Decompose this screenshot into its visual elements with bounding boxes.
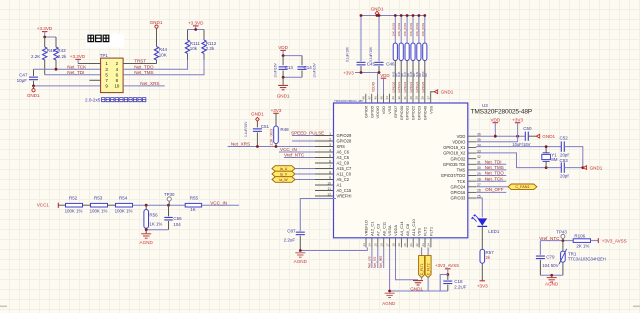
svg-text:3: 3 — [329, 143, 331, 147]
svg-text:9: 9 — [329, 176, 331, 180]
svg-text:Net_VS: Net_VS — [373, 256, 377, 268]
svg-text:GPIO24: GPIO24 — [451, 184, 467, 189]
svg-text:VDDA: VDDA — [393, 225, 398, 236]
svg-text:GPIO18_X2: GPIO18_X2 — [443, 151, 466, 156]
svg-text:10K_0603: 10K_0603 — [421, 22, 425, 36]
svg-text:VREFLO: VREFLO — [364, 220, 369, 236]
U3 top pin names (rotated) — [363, 105, 433, 120]
wire VDDIO row — [476, 141, 517, 143]
svg-text:34: 34 — [477, 144, 481, 148]
svg-text:+3.3VD: +3.3VD — [70, 54, 86, 59]
svg-text:GND1: GND1 — [410, 286, 423, 291]
svg-text:C47: C47 — [19, 72, 28, 77]
svg-text:0.1uF/16V: 0.1uF/16V — [345, 46, 349, 62]
svg-text:100K 1%: 100K 1% — [65, 208, 83, 213]
svg-text:6: 6 — [329, 159, 331, 163]
svg-text:GPIO22: GPIO22 — [403, 81, 407, 92]
svg-text:GPIO16: GPIO16 — [451, 190, 467, 195]
U3 right pins 36-25 stubs and numbers — [468, 136, 476, 198]
svg-text:GPIO32: GPIO32 — [451, 156, 467, 161]
svg-text:GPIO19_X1: GPIO19_X1 — [443, 145, 466, 150]
wire TRST (TP1 pin2 to R44) — [123, 63, 156, 65]
svg-text:TMS320F28002x-48P: TMS320F28002x-48P — [334, 99, 363, 103]
wire Net_WS label pin16 — [383, 247, 385, 268]
svg-text:VCC1: VCC1 — [37, 202, 50, 207]
ground AGND below R56 — [141, 234, 151, 238]
svg-text:2.2uF: 2.2uF — [284, 238, 296, 243]
capacitor C51 — [256, 121, 258, 127]
svg-text:+3V3_AVSS: +3V3_AVSS — [602, 238, 627, 243]
resistor R48 — [275, 113, 277, 126]
svg-text:A8_C11: A8_C11 — [381, 221, 386, 236]
svg-text:15: 15 — [374, 243, 378, 247]
svg-text:Net_TDI: Net_TDI — [485, 159, 502, 164]
svg-text:10K_0603: 10K_0603 — [409, 22, 413, 36]
wire Vref_NTC node — [540, 240, 573, 242]
svg-text:8: 8 — [329, 170, 331, 174]
U3 left pin names — [337, 133, 353, 199]
capacitor C13 — [282, 56, 284, 66]
svg-text:C_FLT2: C_FLT2 — [427, 263, 431, 275]
resistor R43 — [55, 37, 57, 47]
svg-text:GPIO5: GPIO5 — [369, 105, 374, 118]
svg-text:7: 7 — [329, 165, 331, 169]
svg-text:FLT2: FLT2 — [423, 226, 428, 236]
svg-text:VDD: VDD — [278, 45, 288, 50]
svg-text:C50: C50 — [523, 126, 532, 131]
svg-text:VDD: VDD — [490, 118, 500, 123]
wire Net_VS label pin15 — [377, 247, 379, 268]
svg-text:32: 32 — [477, 155, 481, 159]
wire ON_OFF / port C_FAN1 — [476, 186, 508, 188]
wire Net_TDO pin29 — [476, 175, 506, 177]
svg-text:LED1: LED1 — [488, 229, 500, 234]
svg-text:10K: 10K — [159, 53, 167, 58]
svg-text:GPIO24: GPIO24 — [415, 81, 419, 92]
window edge marks — [0, 306, 7, 308]
wire VCC1 to R52 — [58, 204, 65, 206]
svg-text:1: 1 — [329, 132, 331, 136]
svg-text:U3: U3 — [482, 103, 488, 108]
svg-text:GPIO35 TDI: GPIO35 TDI — [443, 162, 465, 167]
wire Net_XRS stub (TP1 pin10) — [123, 85, 165, 87]
resistor R48 strap — [412, 16, 414, 44]
LED LED1 — [471, 214, 487, 226]
svg-text:Ia_V: Ia_V — [280, 172, 288, 176]
wire top GND rail — [361, 15, 425, 17]
U3 bottom pins stubs and numbers — [366, 238, 431, 248]
capacitor C52 — [561, 141, 564, 151]
svg-text:Vref_NTC: Vref_NTC — [284, 153, 305, 158]
svg-text:43: 43 — [391, 96, 395, 100]
svg-text:12: 12 — [327, 192, 331, 196]
svg-text:C56: C56 — [173, 216, 182, 221]
svg-text:8M: 8M — [551, 157, 558, 162]
svg-text:R48: R48 — [280, 127, 289, 132]
svg-text:Net_TDO: Net_TDO — [134, 64, 154, 69]
svg-text:2: 2 — [329, 137, 331, 141]
svg-text:GPIO23: GPIO23 — [409, 81, 413, 92]
svg-text:Net_TMS: Net_TMS — [485, 165, 504, 170]
svg-text:GPIO30: GPIO30 — [399, 105, 404, 120]
svg-text:100K 1%: 100K 1% — [90, 208, 108, 213]
resistor R42 — [44, 37, 46, 47]
svg-text:1K 1%: 1K 1% — [149, 221, 162, 226]
svg-text:40: 40 — [409, 96, 413, 100]
U3 top pins stubs and numbers — [366, 94, 431, 103]
svg-text:A6_C6: A6_C6 — [337, 150, 350, 155]
svg-text:A2_C9: A2_C9 — [337, 161, 350, 166]
capacitor C45 column — [360, 16, 362, 62]
resistor R112 — [203, 30, 205, 41]
wire C79/TR1 bottoms — [540, 274, 563, 276]
svg-text:GPIO25: GPIO25 — [421, 81, 425, 92]
wire R106 to +3V3_AVSS — [591, 240, 599, 242]
ground GND1 top right arrow — [434, 90, 437, 94]
svg-text:VSS: VSS — [417, 228, 422, 236]
wire LED1 to R57 — [481, 227, 483, 250]
wire SPEED_PULSE to pin1 — [292, 135, 315, 137]
wire Net_TDI pin31 — [476, 163, 506, 165]
svg-text:TTC3A103G34H2EH: TTC3A103G34H2EH — [568, 257, 606, 262]
svg-text:VREFHI: VREFHI — [337, 194, 352, 199]
svg-text:ON_OFF: ON_OFF — [485, 187, 504, 192]
svg-text:GPIO31: GPIO31 — [405, 105, 410, 120]
svg-text:Net_US: Net_US — [367, 256, 371, 268]
wire Net_TMS (TP1 pin6 to R112) — [123, 60, 204, 75]
port Ia_W to pin9 — [272, 177, 295, 183]
svg-text:C_FAN1: C_FAN1 — [515, 185, 529, 189]
wire X1 net to C52 — [476, 146, 561, 148]
svg-text:VDD: VDD — [380, 73, 389, 78]
capacitor C87 — [296, 232, 305, 235]
svg-text:C13: C13 — [285, 65, 294, 70]
svg-text:37: 37 — [427, 96, 431, 100]
svg-text:TMS: TMS — [457, 168, 466, 173]
wire Net_TCK — [34, 68, 101, 70]
svg-text:R56: R56 — [149, 212, 158, 217]
ground GND1 at C47 — [33, 86, 35, 89]
svg-text:A10_C10: A10_C10 — [411, 219, 416, 236]
svg-text:10uF/16V: 10uF/16V — [313, 62, 317, 77]
svg-text:10uF/16V: 10uF/16V — [274, 62, 278, 77]
svg-text:0.1uF/16V: 0.1uF/16V — [369, 46, 373, 62]
svg-text:GND1: GND1 — [27, 93, 40, 98]
svg-text:C_FLT1: C_FLT1 — [420, 263, 424, 275]
svg-text:GPIO23: GPIO23 — [417, 105, 422, 120]
wire C13/C14 bottoms — [283, 76, 302, 78]
svg-text:100K 1%: 100K 1% — [115, 208, 133, 213]
svg-text:Net_TDI: Net_TDI — [67, 70, 84, 75]
wire +3.3VD split to R42/R43 — [45, 36, 56, 38]
wire Net_TDI — [45, 74, 101, 76]
capacitor C47 — [33, 69, 35, 76]
svg-text:10: 10 — [114, 84, 119, 89]
svg-text:22: 22 — [415, 243, 419, 247]
wire VDD to C13/C14 tops — [283, 55, 302, 57]
svg-text:20pf: 20pf — [560, 174, 569, 179]
svg-text:SPEED_PULSE: SPEED_PULSE — [291, 131, 324, 136]
svg-text:GPIO28: GPIO28 — [337, 139, 353, 144]
svg-text:44: 44 — [385, 96, 389, 100]
wire GPIO16 pin26 — [476, 191, 506, 193]
svg-text:45: 45 — [379, 96, 383, 100]
svg-text:R44: R44 — [159, 47, 168, 52]
wire last VSS top pin to GND1 — [431, 92, 435, 94]
crystal Y1 8M — [545, 147, 547, 153]
svg-text:TMS320F280025-48P: TMS320F280025-48P — [471, 108, 533, 115]
svg-text:10K_0603: 10K_0603 — [415, 22, 419, 36]
wire Net_TDO (TP1 pin4 to R111) — [123, 60, 187, 69]
svg-text:R57: R57 — [486, 250, 495, 255]
svg-text:GPIO6: GPIO6 — [363, 105, 368, 118]
svg-text:2.2K_0603: 2.2K_0603 — [269, 129, 273, 146]
svg-text:C51: C51 — [261, 124, 270, 129]
svg-text:GPIO33: GPIO33 — [451, 196, 467, 201]
svg-text:A4_C14: A4_C14 — [399, 221, 404, 236]
wire C53 to GND1 — [564, 167, 583, 169]
wire VCC_IN to pin4 — [279, 151, 315, 153]
svg-text:2K 1%: 2K 1% — [576, 243, 589, 248]
svg-text:13: 13 — [362, 243, 366, 247]
resistor R45 strap — [394, 16, 396, 44]
svg-text:2.2k: 2.2k — [206, 46, 215, 51]
svg-text:GPIO21: GPIO21 — [397, 81, 401, 92]
svg-text:20: 20 — [403, 243, 407, 247]
U3 right pin names — [441, 134, 466, 201]
svg-text:10μF: 10μF — [17, 78, 28, 83]
svg-text:A15_C7: A15_C7 — [337, 166, 353, 171]
svg-text:104: 104 — [173, 222, 181, 227]
svg-text:41: 41 — [403, 96, 407, 100]
wire X2 net — [476, 153, 561, 168]
svg-text:VSS: VSS — [428, 105, 433, 113]
resistor R55 — [185, 203, 201, 207]
svg-text:TP43: TP43 — [556, 229, 567, 234]
svg-text:A0_C15: A0_C15 — [337, 188, 353, 193]
port C_FLT1 vertical — [421, 247, 423, 255]
svg-text:+3.3VD: +3.3VD — [188, 21, 204, 26]
svg-text:Net_WS: Net_WS — [379, 255, 383, 268]
svg-text:42: 42 — [397, 96, 401, 100]
wire Net_US label pin14 — [371, 247, 373, 268]
svg-text:19: 19 — [397, 243, 401, 247]
svg-text:C87: C87 — [287, 228, 296, 233]
wire VREFHI to C87 — [300, 199, 336, 232]
resistor R49 strap — [418, 16, 420, 44]
svg-text:A12_C1: A12_C1 — [370, 221, 375, 236]
wire Net_TCK pin28 — [476, 180, 506, 182]
svg-text:VDDIO: VDDIO — [371, 81, 375, 92]
svg-text:AGND: AGND — [140, 240, 154, 245]
U3 bottom pin names (rotated) — [364, 219, 434, 236]
svg-text:AGND: AGND — [382, 301, 396, 306]
wire VSS pin to GND1 — [396, 247, 419, 279]
wire +3V3 to VDDIO top pin — [377, 73, 379, 94]
svg-text:+3V3: +3V3 — [477, 284, 488, 289]
svg-text:TCK: TCK — [457, 179, 465, 184]
svg-text:C46: C46 — [386, 62, 395, 67]
capacitor C18 — [447, 275, 449, 280]
svg-text:Net_XRS: Net_XRS — [140, 81, 159, 86]
svg-text:104 50V: 104 50V — [542, 263, 558, 268]
svg-text:2.2UF: 2.2UF — [454, 285, 467, 290]
wire GPIO33 to LED1 — [476, 198, 482, 217]
svg-text:16: 16 — [380, 243, 384, 247]
port Ia_U to pin7 — [272, 166, 295, 172]
wire Net_TMS pin30 — [476, 169, 506, 171]
svg-text:A3_C5: A3_C5 — [337, 155, 350, 160]
svg-text:A1: A1 — [337, 183, 343, 188]
svg-text:24: 24 — [427, 243, 431, 247]
wire VDD row to C50 — [476, 135, 525, 137]
svg-text:+3V3: +3V3 — [512, 118, 523, 123]
svg-text:0R: 0R — [424, 73, 428, 77]
svg-text:AGND: AGND — [294, 259, 308, 264]
svg-text:AGND: AGND — [545, 282, 559, 287]
svg-text:0.1uF/16V: 0.1uF/16V — [244, 121, 248, 137]
resistor R111 — [187, 30, 189, 41]
wire Vref_NTC to pin5 — [284, 157, 315, 159]
resistor R56 — [145, 205, 147, 209]
resistor R53 — [91, 203, 108, 207]
svg-text:VCC_IN: VCC_IN — [210, 200, 227, 205]
wire +3V3_AVSS elbow — [440, 275, 448, 292]
resistor R106 — [573, 239, 590, 243]
wire VSSA to AGND rail — [389, 247, 391, 291]
svg-text:+3V3_AVSS: +3V3_AVSS — [435, 263, 459, 268]
svg-text:GPIO40: GPIO40 — [422, 105, 427, 120]
svg-text:21: 21 — [409, 243, 413, 247]
svg-text:20pf: 20pf — [560, 152, 569, 157]
wire R53-R54 — [108, 204, 116, 206]
resistor R46 strap — [400, 16, 402, 44]
svg-text:GPIO20: GPIO20 — [391, 81, 395, 92]
svg-text:GND1: GND1 — [542, 134, 555, 139]
svg-text:Net_TMS: Net_TMS — [134, 70, 153, 75]
wire R55 to VCC_IN — [202, 204, 239, 206]
svg-text:VCC_IN: VCC_IN — [280, 147, 297, 152]
svg-text:FLT1: FLT1 — [429, 226, 434, 236]
capacitor C53 — [561, 162, 564, 172]
svg-text:Ia_W: Ia_W — [279, 178, 288, 182]
ground GND1 below C13 — [282, 77, 284, 85]
svg-text:R106: R106 — [574, 234, 585, 239]
svg-text:10k: 10k — [190, 46, 198, 51]
svg-text:Vref_NTC: Vref_NTC — [539, 236, 560, 241]
svg-text:Net_TCK: Net_TCK — [485, 176, 504, 181]
resistor R52 — [66, 203, 83, 207]
op-amp U3 TMS320F280025-48P body — [334, 103, 468, 238]
svg-text:VDD: VDD — [381, 106, 386, 115]
ground AGND below U3 — [385, 293, 395, 297]
svg-text:23: 23 — [421, 243, 425, 247]
header TP1 2x5 — [101, 58, 124, 93]
svg-text:GND1: GND1 — [150, 20, 163, 25]
svg-text:GND1: GND1 — [277, 93, 290, 98]
power +3V3 below R57 — [480, 280, 486, 282]
capacitor C50 — [525, 132, 528, 141]
svg-text:Ia_U: Ia_U — [280, 167, 288, 171]
ground GND1 below U3 — [413, 281, 423, 285]
thermistor TR1 TTC3A103G34H2EH — [562, 241, 564, 252]
wire C87 to VREFLO pin13 — [300, 247, 367, 250]
svg-text:+3V3: +3V3 — [271, 108, 282, 113]
wire R56/C56 bottoms to AGND — [145, 228, 147, 230]
svg-text:47: 47 — [368, 96, 372, 100]
svg-text:A5_C2: A5_C2 — [337, 177, 350, 182]
svg-text:GND1: GND1 — [441, 89, 454, 94]
svg-text:Net_XRS: Net_XRS — [231, 142, 250, 147]
svg-text:GPIO7: GPIO7 — [393, 105, 398, 118]
svg-text:2.0-2x5: 2.0-2x5 — [85, 98, 101, 103]
svg-text:38: 38 — [421, 96, 425, 100]
svg-text:TP30: TP30 — [164, 192, 175, 197]
svg-text:10: 10 — [327, 181, 331, 185]
svg-text:XRS: XRS — [337, 144, 346, 149]
svg-text:VSS: VSS — [387, 105, 392, 113]
svg-text:1K: 1K — [190, 207, 195, 212]
svg-text:A9_C8: A9_C8 — [405, 223, 410, 236]
svg-text:R43: R43 — [57, 48, 66, 53]
svg-text:A11_C0: A11_C0 — [337, 172, 352, 177]
svg-text:11: 11 — [327, 187, 331, 191]
port C_FLT2 vertical — [427, 247, 429, 255]
svg-text:C14: C14 — [304, 65, 313, 70]
svg-text:GPIO37/TDO: GPIO37/TDO — [441, 173, 466, 178]
svg-text:A7_C3: A7_C3 — [375, 223, 380, 236]
power +3V3_AVSS right — [597, 238, 599, 243]
title text emulator (CJK) — [86, 34, 124, 48]
wire Net_XRS to U3 pin3 — [228, 146, 316, 148]
svg-text:48: 48 — [362, 96, 366, 100]
ground AGND below C87 — [295, 253, 305, 257]
svg-text:R54: R54 — [119, 196, 128, 201]
ground AGND below TR1 — [551, 275, 553, 277]
svg-text:10K_0603: 10K_0603 — [391, 22, 395, 36]
svg-text:C79: C79 — [546, 254, 555, 259]
svg-text:2.2K: 2.2K — [31, 54, 40, 59]
resistor R57 — [480, 249, 485, 263]
svg-text:+3V3: +3V3 — [343, 70, 354, 75]
svg-text:Net_TCK: Net_TCK — [67, 64, 87, 69]
wire TP1 pin9 to C47/GND1 — [34, 85, 101, 87]
resistor R54 — [116, 203, 133, 207]
svg-text:14: 14 — [368, 243, 372, 247]
capacitor C14 — [301, 56, 303, 66]
wire AGND rail to C18 — [390, 290, 448, 292]
svg-text:VDDIO: VDDIO — [375, 106, 380, 119]
wire R54 to R55 node — [133, 204, 186, 206]
svg-text:5: 5 — [329, 154, 331, 158]
svg-text:R52: R52 — [69, 196, 78, 201]
svg-text:C18: C18 — [454, 279, 463, 284]
svg-text:VDDIO: VDDIO — [452, 139, 465, 144]
svg-text:C52: C52 — [560, 135, 569, 140]
capacitor C79 — [539, 241, 541, 255]
svg-text:46: 46 — [373, 96, 377, 100]
svg-text:GPIO29: GPIO29 — [337, 133, 353, 138]
svg-text:10K_0603: 10K_0603 — [397, 22, 401, 36]
svg-text:Net_TDO: Net_TDO — [485, 171, 505, 176]
svg-text:17: 17 — [385, 243, 389, 247]
svg-text:GND1: GND1 — [590, 165, 603, 170]
svg-text:10K_0603: 10K_0603 — [403, 22, 407, 36]
resistor R50 strap — [424, 16, 426, 44]
port Ia_V to pin8 — [272, 171, 295, 177]
svg-text:4: 4 — [329, 148, 331, 152]
svg-text:TRST: TRST — [134, 59, 146, 64]
